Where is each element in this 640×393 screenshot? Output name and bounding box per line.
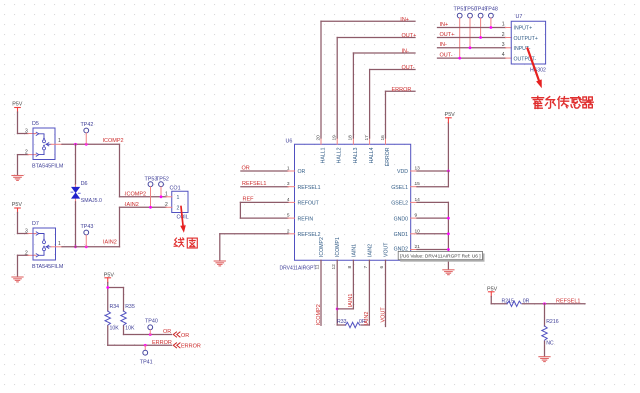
svg-text:P5V: P5V — [12, 202, 23, 208]
svg-text:2: 2 — [165, 202, 168, 208]
junction (TP50 on IN-) — [469, 46, 472, 49]
power symbol P5V (REFSEL1 divider) — [487, 286, 498, 297]
ground (below D5) — [12, 176, 23, 181]
wire ICOMP1 (pin12) down to R33 — [336, 260, 338, 325]
svg-text:OUT-: OUT- — [440, 53, 453, 59]
annotation text 霍尔传感器 (hall sensor) — [532, 96, 593, 108]
wire net OR to U6 pin 1 — [241, 170, 288, 172]
junction (TP48 on IN+) — [490, 26, 493, 29]
wire P5V to D5 pin 3 — [17, 112, 19, 134]
junction (TP49 on OUT+) — [479, 36, 482, 39]
annotation arrow to hall sensor text — [528, 49, 542, 89]
test point TP52 — [156, 176, 169, 197]
svg-text:1: 1 — [58, 241, 61, 247]
svg-text:IN-: IN- — [440, 42, 448, 48]
svg-text:VDD: VDD — [397, 169, 408, 175]
svg-text:REFSEL2: REFSEL2 — [298, 232, 321, 238]
junction (P5V split) — [106, 286, 109, 289]
svg-text:SMAJ5.0: SMAJ5.0 — [81, 198, 102, 204]
svg-text:3: 3 — [502, 42, 505, 48]
pin 3 stub of D7 — [28, 233, 36, 235]
svg-text:1: 1 — [58, 138, 61, 144]
svg-text:VOUT: VOUT — [380, 307, 386, 323]
svg-text:7: 7 — [363, 266, 369, 269]
test point TP49 — [475, 7, 488, 38]
svg-text:D5: D5 — [32, 121, 39, 127]
svg-text:R35: R35 — [125, 304, 135, 310]
wire net IN- to U7 pin 3 — [438, 47, 506, 49]
annotation text 线圈 (coil) — [174, 238, 197, 248]
ground (below D7) — [12, 277, 23, 282]
test point TP48 — [485, 7, 498, 28]
wire IAIN2 (pin7) down — [368, 260, 370, 325]
svg-text:6: 6 — [379, 266, 385, 269]
svg-text:8: 8 — [347, 266, 353, 269]
wire net OUT- to U7 pin 4 — [438, 57, 506, 59]
wire net ICOMP2 from D5 pin1 to CO1 pin1 — [62, 143, 120, 145]
junction (TP40 on OR) — [149, 333, 152, 336]
junction (TP43 tap) — [85, 245, 88, 248]
ground (REFSEL2) — [214, 261, 225, 266]
svg-text:REFSEL1: REFSEL1 — [242, 181, 266, 187]
wire net IAIN2 from D7 pin1 to CO1 pin2 — [62, 246, 120, 248]
svg-text:CO1: CO1 — [170, 186, 181, 192]
wire net REFSEL2 (pin 2) to ground — [220, 234, 295, 261]
svg-text:HALL1: HALL1 — [321, 147, 327, 163]
junction (TP52 on ICOMP2) — [160, 195, 163, 198]
connector CO1 (COIL) — [165, 186, 189, 221]
wire HALL1 (pin20) to net IN+ — [321, 21, 415, 144]
resistor R215 0R — [502, 298, 530, 306]
wire D6 vertical branch — [75, 144, 77, 184]
svg-text:R33: R33 — [337, 319, 347, 325]
test point TP50 — [464, 7, 477, 48]
resistor R35 10K — [121, 304, 135, 334]
svg-text:ICOMP1: ICOMP1 — [335, 237, 341, 257]
svg-text:U7: U7 — [516, 14, 523, 20]
svg-text:GND0: GND0 — [394, 217, 409, 223]
svg-text:OR: OR — [181, 333, 189, 339]
svg-text:IAIN2: IAIN2 — [364, 312, 370, 326]
svg-text:11: 11 — [315, 264, 321, 269]
wire P5V to R215 — [491, 297, 507, 304]
svg-text:IN-: IN- — [402, 49, 410, 55]
power symbol P5V (feeds D7 pin 3) — [12, 202, 23, 213]
ground (R216) — [539, 357, 550, 362]
wire ICOMP2 (pin11) down — [320, 260, 322, 325]
wire net REFSEL1 to U6 pin 3 — [241, 186, 288, 188]
resistor R34 10K — [105, 304, 119, 345]
svg-text:OUT-: OUT- — [402, 65, 415, 71]
wire P5V to D7 pin 3 — [17, 213, 19, 234]
svg-text:OR: OR — [163, 329, 171, 335]
test point TP53 — [145, 176, 158, 207]
svg-text:ICOMP2: ICOMP2 — [316, 304, 322, 325]
wire IAIN1 (pin8) jog to pin12 wire — [337, 260, 353, 309]
junction (TP51 on OUT-) — [458, 57, 461, 60]
wire GND0 (pin9) — [411, 217, 449, 219]
junction (GND0) — [447, 217, 450, 220]
svg-text:OUTPUT+: OUTPUT+ — [514, 36, 538, 42]
svg-text:1: 1 — [165, 191, 168, 197]
ground (IC GND rail) — [443, 270, 454, 275]
svg-text:IAIN1: IAIN1 — [348, 294, 354, 308]
svg-text:HS302: HS302 — [530, 68, 546, 74]
wire D6 bottom to IAIN2 net — [75, 202, 77, 247]
pin 2 stub of D5 — [28, 154, 36, 156]
svg-text:U6: U6 — [286, 139, 293, 145]
svg-text:HALL2: HALL2 — [337, 147, 343, 163]
svg-text:OUT+: OUT+ — [402, 33, 417, 39]
power symbol P5V (pull-up rail R34/R35) — [104, 272, 115, 283]
svg-text:ERROR: ERROR — [152, 340, 172, 346]
svg-text:1: 1 — [502, 22, 505, 28]
svg-text:ERROR: ERROR — [181, 344, 201, 350]
junction (D6 top tap) — [74, 143, 77, 146]
svg-text:NC: NC — [546, 341, 554, 347]
svg-text:ICOMP2: ICOMP2 — [103, 138, 124, 144]
op-amp / sensor IC U6 DRV411AIRGPT — [280, 135, 421, 272]
svg-text:IN+: IN+ — [400, 17, 409, 23]
wire P5V rail to R34/R35 — [108, 283, 124, 312]
junction (TP53 on IAIN2) — [149, 206, 152, 209]
svg-text:4: 4 — [502, 52, 505, 58]
junction (D6 bottom tap) — [74, 245, 77, 248]
junction (TP42 tap) — [85, 143, 88, 146]
svg-text:ICOMP2: ICOMP2 — [319, 237, 325, 257]
test point TP51 — [454, 7, 467, 59]
svg-text:REFSEL1: REFSEL1 — [298, 185, 321, 191]
svg-text:10K: 10K — [125, 326, 135, 332]
svg-text:GSEL1: GSEL1 — [391, 185, 408, 191]
svg-text:10K: 10K — [110, 326, 120, 332]
test point TP40 — [145, 319, 158, 335]
power symbol P5V (top-left, feeds D5 pin 3) — [12, 102, 23, 113]
wire VOUT (pin6) down — [385, 260, 387, 326]
svg-text:ERROR: ERROR — [385, 147, 391, 166]
transient suppressor D5 BTA545FILM — [25, 121, 64, 169]
svg-text:3: 3 — [25, 129, 28, 135]
svg-text:REF: REF — [243, 196, 255, 202]
wire VDD (pin13) to P5V rail — [411, 123, 449, 172]
svg-text:TP43: TP43 — [81, 224, 94, 230]
svg-text:2: 2 — [25, 250, 28, 256]
wire D5 pin 2 to ground — [18, 154, 29, 156]
svg-text:OR: OR — [298, 169, 306, 175]
svg-text:OR: OR — [242, 165, 250, 171]
svg-text:BTA545FILM: BTA545FILM — [32, 264, 64, 270]
svg-text:1: 1 — [177, 195, 180, 201]
annotation arrow to coil text — [180, 207, 186, 233]
wire net REFSEL1 — [523, 303, 586, 305]
test point TP41 — [140, 345, 153, 365]
svg-text:VOUT: VOUT — [383, 242, 389, 257]
junction (pin12/pin8 tie) — [336, 308, 339, 311]
wire GND2 (pin21) — [411, 249, 449, 251]
wire GND1 (pin10) — [411, 233, 449, 235]
junction (R216 tap) — [543, 302, 546, 305]
svg-text:INPUT+: INPUT+ — [514, 26, 533, 32]
off-page connector OR — [173, 332, 189, 339]
svg-text:REFSEL1: REFSEL1 — [556, 298, 580, 304]
svg-text:REFOUT: REFOUT — [298, 201, 320, 207]
pin stubs of D6 — [75, 184, 77, 188]
svg-text:IN+: IN+ — [440, 22, 449, 28]
wire GSEL1 (pin15) to rail — [411, 171, 449, 187]
wire net OUT+ to U7 pin 2 — [438, 37, 506, 39]
wire net REF loop pin4 REFOUT to pin5 REFIN — [240, 202, 294, 218]
svg-text:REFIN: REFIN — [298, 216, 314, 222]
pin 1 stub of D5 — [51, 143, 62, 145]
power symbol P5V (VDD rail) — [445, 112, 456, 123]
svg-text:2: 2 — [177, 206, 180, 212]
junction (GND2) — [447, 248, 450, 251]
wire net IN+ to U7 pin 1 — [438, 27, 506, 29]
wire net OR (R35 bottom) — [124, 334, 172, 336]
svg-text:ERROR: ERROR — [392, 87, 412, 93]
svg-text:D6: D6 — [81, 181, 88, 187]
off-page connector ERROR — [173, 343, 201, 350]
junction (GND1) — [447, 232, 450, 235]
connector U7 HS302 (hall sensor) — [502, 14, 546, 73]
wire ERROR (pin16) to net ERROR — [386, 91, 416, 144]
svg-text:3: 3 — [25, 229, 28, 235]
svg-text:TP52: TP52 — [156, 176, 169, 182]
svg-text:IAIN1: IAIN1 — [351, 244, 357, 257]
svg-text:GND1: GND1 — [394, 232, 409, 238]
test point TP42 — [81, 122, 94, 145]
svg-text:2: 2 — [502, 32, 505, 38]
svg-text:2: 2 — [25, 150, 28, 156]
svg-text:TP41: TP41 — [140, 360, 153, 366]
svg-text:D7: D7 — [32, 221, 39, 227]
svg-text:P5V: P5V — [12, 102, 23, 108]
wire net ERROR (R34 bottom) — [108, 344, 172, 346]
svg-text:[/U6 Value: DRV411AIRGPT Ref:: [/U6 Value: DRV411AIRGPT Ref: U6 ] — [400, 254, 480, 260]
resistor R33 0R (between ICOMP1 node and IAIN2) — [337, 319, 369, 328]
wire HALL2 (pin19) to net OUT+ — [337, 38, 415, 145]
junction (TP41 on ERROR) — [144, 344, 147, 347]
svg-text:IAIN2: IAIN2 — [125, 202, 139, 208]
svg-text:HALL4: HALL4 — [369, 147, 375, 163]
svg-text:TP48: TP48 — [485, 7, 498, 13]
wire HALL3 (pin18) to net IN- — [353, 53, 415, 144]
pin 3 stub of D5 — [28, 133, 36, 135]
pin 2 stub of D7 — [28, 254, 36, 256]
wire D7 pin 2 to ground — [18, 254, 29, 256]
svg-text:TP42: TP42 — [81, 122, 94, 128]
svg-text:BTA545FILM: BTA545FILM — [32, 164, 64, 170]
test point TP43 — [81, 224, 94, 247]
wire GSEL2 (pin14) to ground rail — [411, 202, 449, 269]
svg-text:HALL3: HALL3 — [353, 147, 359, 163]
tooltip box [/U6 Value: DRV411AIRGPT Ref: U6 ] — [398, 251, 484, 261]
resistor R216 NC — [542, 304, 559, 356]
svg-text:OUT+: OUT+ — [440, 32, 455, 38]
pin 1 stub of D7 — [51, 246, 62, 248]
svg-text:R34: R34 — [110, 304, 120, 310]
svg-text:GSEL2: GSEL2 — [391, 201, 408, 207]
svg-text:ICOMP2: ICOMP2 — [125, 191, 146, 197]
transient suppressor D7 BTA545FILM — [25, 221, 64, 270]
svg-text:12: 12 — [331, 264, 337, 270]
svg-text:R216: R216 — [546, 319, 559, 325]
svg-text:TP40: TP40 — [145, 319, 158, 325]
junction (VDD tap) — [447, 170, 450, 173]
wire HALL4 (pin17) to net OUT- — [370, 70, 415, 145]
svg-text:DRV411AIRGPT: DRV411AIRGPT — [280, 266, 317, 272]
svg-text:IAIN2: IAIN2 — [368, 244, 374, 257]
TVS diode D6 SMAJ5.0 (bidirectional) — [71, 181, 102, 204]
svg-text:IAIN2: IAIN2 — [103, 240, 117, 246]
